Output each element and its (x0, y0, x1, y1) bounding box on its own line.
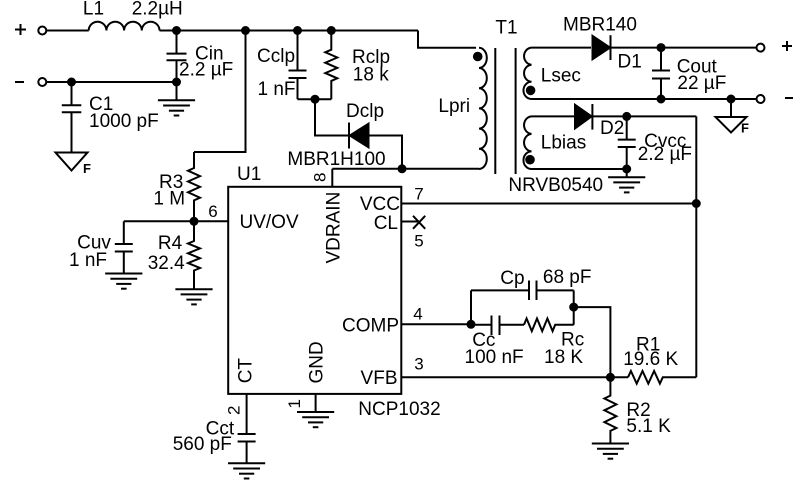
svg-text:68 pF: 68 pF (543, 267, 592, 288)
transformer bias Lbias (523, 116, 531, 169)
node junction COMP (468, 321, 475, 328)
node junction Rclp top (328, 27, 335, 34)
svg-text:560 pF: 560 pF (173, 434, 232, 455)
node junction frame gnd (728, 96, 735, 103)
wire VDRAIN net (332, 168, 479, 170)
wire comp right bar (573, 290, 575, 324)
svg-text:MBR140: MBR140 (563, 15, 637, 36)
wire Cp right (537, 289, 574, 291)
svg-text:D1: D1 (618, 52, 642, 73)
capacitor Cin (167, 31, 187, 83)
resistor R2 (604, 377, 616, 443)
capacitor Cuv (115, 221, 133, 273)
svg-text:NRVB0540: NRVB0540 (508, 175, 603, 196)
output plus terminal (757, 44, 765, 52)
wire (46, 30, 88, 32)
output minus terminal (757, 95, 765, 103)
svg-text:1: 1 (285, 399, 304, 408)
transformer T1 primary Lpri (479, 48, 487, 169)
ground (297, 412, 334, 427)
wire pin6 (124, 220, 229, 222)
svg-text:2: 2 (225, 406, 244, 415)
svg-text:U1: U1 (237, 164, 261, 185)
svg-text:8: 8 (311, 173, 330, 182)
capacitor Cout (652, 48, 670, 99)
svg-text:VDRAIN: VDRAIN (324, 192, 345, 264)
capacitor C1 (62, 82, 82, 153)
IC U1 body (228, 187, 401, 394)
wire GND pin (315, 394, 317, 412)
svg-text:2.2µH: 2.2µH (132, 0, 183, 20)
ground frame C1 (56, 153, 88, 171)
svg-text:T1: T1 (495, 18, 517, 39)
wire R3 drop (194, 31, 246, 153)
ground frame output (716, 117, 747, 133)
capacitor Cp (529, 281, 537, 301)
node junction clamp (312, 96, 319, 103)
svg-text:CL: CL (374, 213, 398, 234)
svg-text:Lbias: Lbias (541, 133, 586, 154)
ground (228, 463, 265, 478)
ground (105, 274, 142, 289)
wire Lbias bottom (532, 168, 627, 170)
minus sign input (15, 81, 24, 83)
svg-text:1 M: 1 M (153, 189, 185, 210)
wire CL stub (402, 221, 419, 223)
node junction Cclp top (294, 27, 301, 34)
ground (592, 444, 629, 459)
phasing dot Lsec (527, 87, 535, 95)
svg-text:2.2 µF: 2.2 µF (638, 144, 692, 165)
resistor R1 (628, 371, 696, 384)
svg-text:2.2 µF: 2.2 µF (179, 60, 233, 81)
svg-text:4: 4 (413, 305, 422, 324)
svg-text:Lpri: Lpri (438, 96, 470, 117)
wire Lsec top (532, 47, 592, 49)
wire (730, 99, 732, 117)
node junction VCC tap (693, 200, 700, 207)
svg-text:Dclp: Dclp (346, 101, 384, 122)
wire comp out (574, 307, 611, 377)
svg-text:3: 3 (414, 355, 423, 374)
svg-text:18 k: 18 k (353, 65, 389, 86)
ground (158, 100, 195, 115)
wire to transformer primary (418, 31, 476, 48)
transformer secondary Lsec (523, 48, 531, 99)
capacitor Cclp (289, 31, 307, 100)
svg-text:CT: CT (236, 358, 257, 384)
node junction C1 (68, 79, 75, 86)
svg-text:6: 6 (208, 202, 217, 221)
plus sign input (15, 24, 26, 35)
node junction drain (399, 165, 406, 172)
ground (608, 177, 645, 192)
node junction comp out (570, 304, 577, 311)
input minus terminal (38, 78, 46, 86)
wire comp up (470, 290, 472, 324)
svg-text:GND: GND (307, 341, 328, 383)
svg-text:19.6 K: 19.6 K (623, 349, 678, 370)
wire clamp bottom (298, 98, 332, 100)
svg-text:L1: L1 (83, 0, 104, 20)
wire VFB (402, 376, 628, 378)
wire (626, 169, 628, 177)
svg-text:UV/OV: UV/OV (240, 212, 299, 233)
svg-text:22 µF: 22 µF (677, 73, 726, 94)
node junction Cvcc top (623, 113, 630, 120)
svg-text:D2: D2 (600, 118, 624, 139)
phasing dot Lpri (474, 53, 482, 61)
node junction R3 drop (242, 27, 249, 34)
wire COMP (402, 323, 471, 325)
node junction Cvcc bottom (623, 166, 630, 173)
ground (175, 289, 212, 304)
inductor L1 (89, 22, 160, 31)
svg-text:1 nF: 1 nF (69, 250, 107, 271)
node junction Cin bottom (173, 79, 180, 86)
node junction Cin top (173, 27, 180, 34)
wire right rail (695, 116, 697, 377)
wire output plus (611, 47, 757, 49)
minus sign output (785, 97, 793, 99)
capacitor Cct (238, 434, 256, 463)
plus sign output (782, 41, 792, 51)
capacitor Cvcc (618, 116, 636, 169)
wire output minus rail (532, 98, 757, 100)
no-connect X (413, 216, 425, 229)
svg-text:Cp: Cp (500, 268, 524, 289)
svg-text:F: F (83, 161, 91, 176)
resistor Rclp (325, 31, 337, 100)
svg-text:VFB: VFB (361, 368, 398, 389)
capacitor Cc (471, 316, 524, 336)
wire Cp left (471, 289, 529, 291)
svg-text:F: F (741, 121, 749, 136)
svg-text:7: 7 (414, 185, 423, 204)
wire top rail (160, 30, 419, 32)
node junction VFB (607, 374, 614, 381)
wire CT pin (246, 394, 248, 434)
svg-text:5.1 K: 5.1 K (626, 416, 671, 437)
svg-text:32.4: 32.4 (148, 253, 185, 274)
svg-text:Lsec: Lsec (541, 66, 581, 87)
svg-text:100 nF: 100 nF (465, 347, 524, 368)
svg-text:VCC: VCC (360, 194, 400, 215)
node junction pin6 (191, 218, 198, 225)
wire (176, 82, 178, 100)
resistor R4 (188, 221, 200, 289)
wire VDRAIN pin (331, 169, 333, 187)
svg-text:NCP1032: NCP1032 (358, 399, 440, 420)
transformer core (495, 48, 515, 174)
diode D2 (575, 104, 592, 130)
resistor R3 (188, 152, 200, 221)
phasing dot Lbias (526, 156, 534, 164)
wire Lbias top (532, 115, 576, 117)
node junction Cout top (658, 44, 665, 51)
svg-text:18 K: 18 K (544, 347, 583, 368)
diode Dclp (349, 123, 402, 169)
svg-text:R4: R4 (158, 233, 183, 254)
svg-text:1000 pF: 1000 pF (89, 111, 159, 132)
wire to Dclp (315, 99, 349, 135)
wire minus rail (46, 81, 176, 83)
wire VCC (402, 203, 697, 205)
resistor Rc (524, 319, 574, 332)
svg-text:MBR1H100: MBR1H100 (287, 149, 385, 170)
svg-text:COMP: COMP (342, 316, 399, 337)
svg-text:5: 5 (414, 232, 423, 251)
svg-text:1 nF: 1 nF (258, 79, 296, 100)
node junction Cout bottom (658, 96, 665, 103)
wire vcc rail top (592, 115, 696, 117)
input plus terminal (38, 27, 46, 35)
svg-text:Cclp: Cclp (257, 46, 295, 67)
diode D1 (593, 35, 611, 60)
